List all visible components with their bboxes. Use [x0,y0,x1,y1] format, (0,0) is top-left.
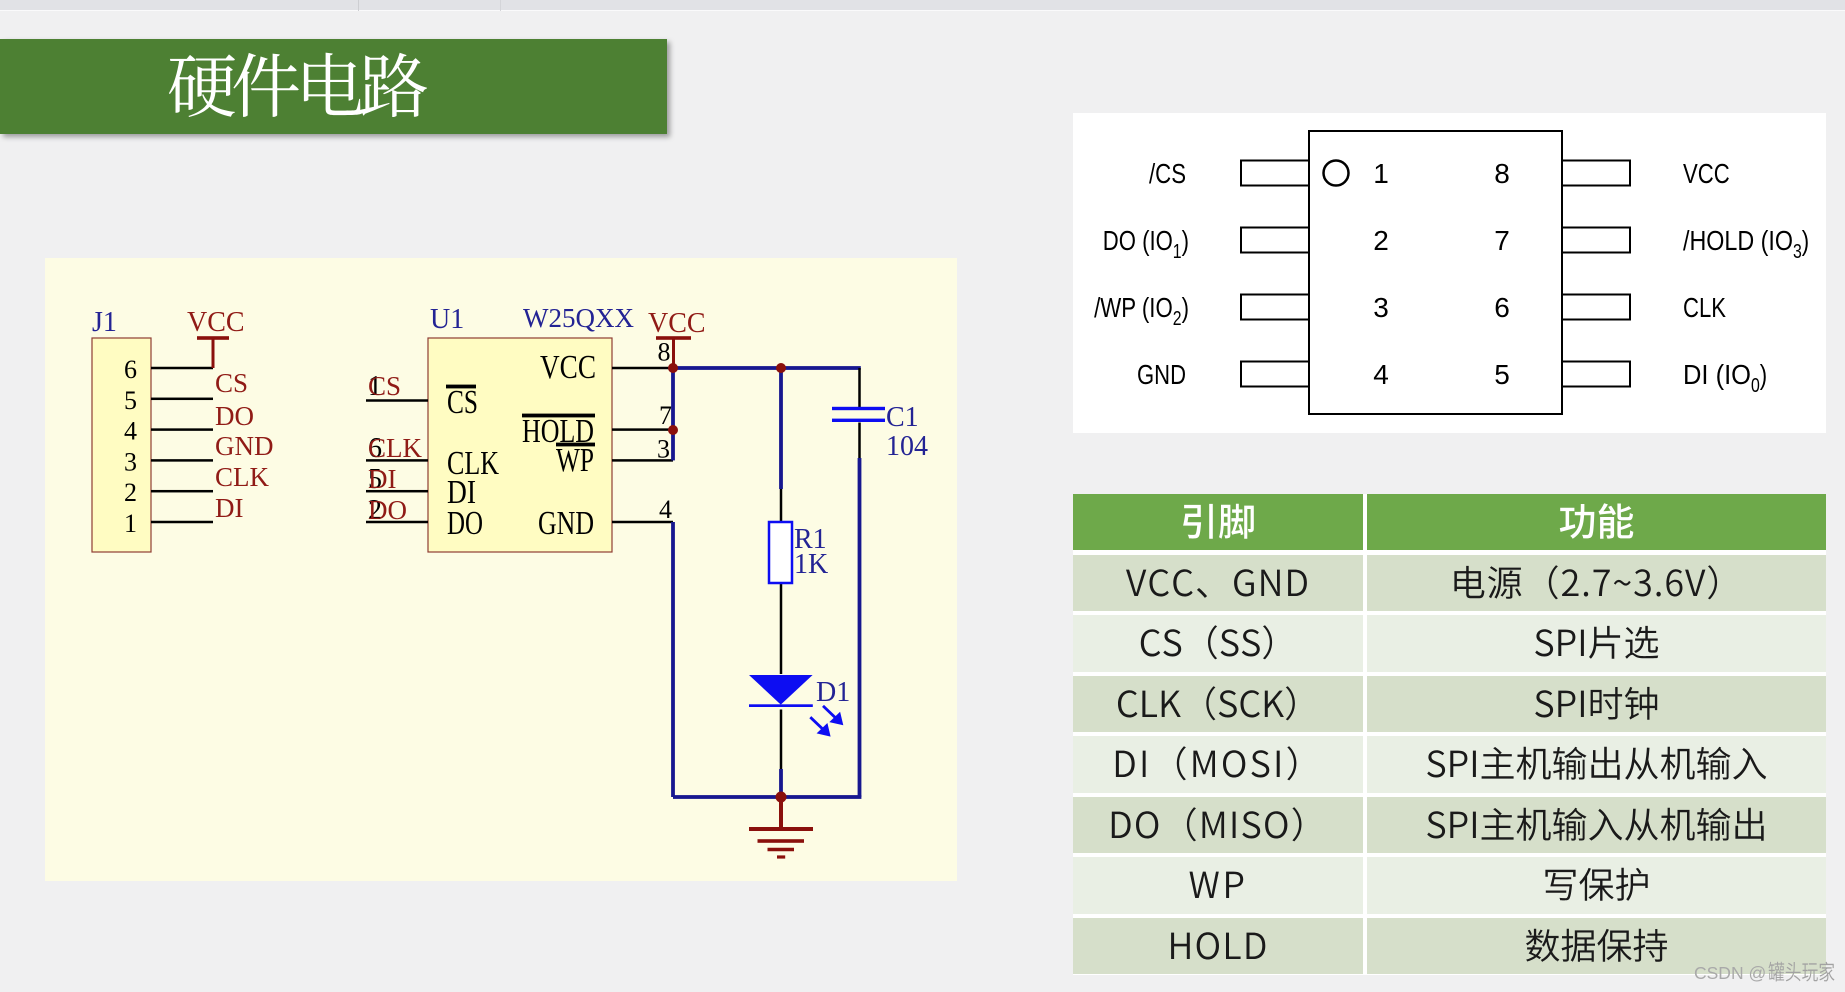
svg-text:DO: DO [215,401,254,431]
svg-text:104: 104 [886,431,928,462]
svg-text:GND: GND [215,431,274,461]
svg-text:J1: J1 [92,307,117,338]
svg-text:DI: DI [368,464,397,494]
svg-text:8: 8 [1494,158,1510,189]
svg-text:): ) [1802,225,1809,256]
svg-text:1: 1 [1173,241,1182,263]
svg-text:4: 4 [1373,359,1389,390]
svg-text:DO (IO: DO (IO [1103,225,1173,256]
svg-text:/CS: /CS [1149,158,1186,189]
svg-text:VCC: VCC [540,349,596,386]
svg-text:1: 1 [124,509,137,538]
svg-text:CS: CS [215,368,248,398]
svg-text:CSDN @: CSDN @ [1694,963,1766,983]
svg-text:CS: CS [368,371,401,401]
svg-text:8: 8 [658,338,671,367]
svg-text:7: 7 [659,401,672,430]
svg-text:CLK: CLK [368,433,423,463]
svg-text:7: 7 [1494,225,1510,256]
svg-text:6: 6 [1494,292,1510,323]
svg-text:DI (IO: DI (IO [1683,359,1751,390]
svg-text:VCC: VCC [187,307,245,338]
svg-text:WP: WP [556,442,594,479]
svg-text:DO: DO [447,505,483,542]
svg-text:3: 3 [124,447,137,476]
svg-text:3: 3 [1793,241,1802,263]
svg-text:): ) [1760,359,1767,390]
svg-text:/HOLD (IO: /HOLD (IO [1683,225,1793,256]
svg-text:DO: DO [368,495,407,525]
svg-text:U1: U1 [430,304,464,335]
svg-text:/WP (IO: /WP (IO [1094,292,1173,323]
svg-text:VCC: VCC [648,308,706,339]
svg-text:0: 0 [1751,375,1760,397]
svg-text:3: 3 [1373,292,1389,323]
svg-text:2: 2 [124,478,137,507]
svg-text:4: 4 [659,495,672,524]
svg-text:W25QXX: W25QXX [523,303,634,333]
svg-text:VCC: VCC [1683,158,1730,189]
svg-text:CLK: CLK [215,462,270,492]
svg-text:2: 2 [1173,308,1182,330]
svg-text:GND: GND [1137,359,1186,390]
svg-text:CS: CS [447,384,478,421]
svg-text:2: 2 [1373,225,1389,256]
svg-text:1: 1 [1373,158,1389,189]
svg-text:GND: GND [538,505,594,542]
svg-text:1K: 1K [794,549,828,580]
svg-text:C1: C1 [886,402,919,433]
svg-text:6: 6 [124,355,137,384]
svg-text:3: 3 [657,435,670,464]
svg-text:5: 5 [1494,359,1510,390]
svg-text:): ) [1182,292,1189,323]
svg-text:DI: DI [215,493,244,523]
svg-text:4: 4 [124,417,137,446]
svg-text:5: 5 [124,386,137,415]
svg-text:): ) [1182,225,1189,256]
svg-text:D1: D1 [816,677,850,708]
svg-text:CLK: CLK [1683,292,1726,323]
